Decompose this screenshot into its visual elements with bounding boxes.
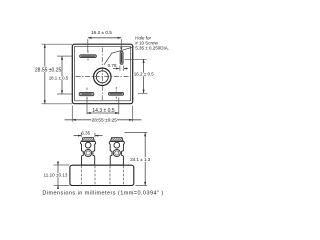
svg-text:5.35 ± 0.250DIA.: 5.35 ± 0.250DIA. bbox=[135, 45, 169, 50]
mounting hole outer circle bbox=[94, 68, 111, 85]
hole note text bbox=[135, 35, 169, 50]
base body bbox=[70, 165, 134, 185]
dimension 28.55 left side bbox=[35, 44, 72, 104]
dimension 16.2 top bbox=[88, 30, 123, 53]
dimension 6.35 tab width bbox=[74, 130, 103, 137]
hidden lines of right tab in base bbox=[109, 166, 111, 185]
dimension 24.1 right side bbox=[125, 132, 151, 185]
svg-text:14.3 ± 0.5: 14.3 ± 0.5 bbox=[92, 108, 114, 114]
dimension 16.2 right side bbox=[125, 59, 155, 93]
svg-text:28.55 ±0.25: 28.55 ±0.25 bbox=[35, 68, 62, 74]
mounting hole inner circle bbox=[96, 71, 108, 83]
svg-text:28.55 ±0.25: 28.55 ±0.25 bbox=[92, 118, 118, 124]
dimension 18.1 left side bbox=[49, 56, 72, 94]
dimension 28.55 bottom bbox=[65, 106, 142, 124]
hole horizontal centerline bbox=[76, 75, 131, 77]
outer body square bbox=[72, 44, 132, 103]
dimension 0.78 slot width bbox=[108, 63, 128, 69]
svg-text:Dimensions in millimeters (1mm: Dimensions in millimeters (1mm=0.0394" ) bbox=[42, 191, 163, 197]
right faston tab bbox=[109, 138, 124, 165]
terminal slot top-right (vertical) bbox=[120, 51, 124, 71]
svg-text:18.1 ± 0.5: 18.1 ± 0.5 bbox=[49, 76, 69, 81]
inner body square bbox=[74, 46, 130, 101]
svg-text:11.10 ±0.13: 11.10 ±0.13 bbox=[44, 173, 68, 178]
svg-text:16.2 ± 0.5: 16.2 ± 0.5 bbox=[134, 71, 154, 76]
terminal slot bottom-right bbox=[108, 87, 123, 101]
svg-text:6.35: 6.35 bbox=[81, 130, 90, 135]
hidden lines of left tab in base bbox=[80, 166, 82, 185]
dimension 14.3 bottom bbox=[87, 98, 119, 115]
svg-text:16.2 ± 0.5: 16.2 ± 0.5 bbox=[91, 30, 112, 35]
svg-text:0.78: 0.78 bbox=[108, 63, 117, 68]
leader line from hole note to hole bbox=[104, 47, 134, 65]
dimension 11.10 left side bbox=[44, 162, 70, 189]
svg-text:24.1 ± 1.3: 24.1 ± 1.3 bbox=[130, 157, 150, 162]
left faston tab bbox=[81, 138, 96, 165]
terminal slot bottom-left bbox=[79, 88, 94, 102]
terminal slot top-left bbox=[80, 51, 97, 63]
hole vertical centerline bbox=[101, 48, 103, 101]
